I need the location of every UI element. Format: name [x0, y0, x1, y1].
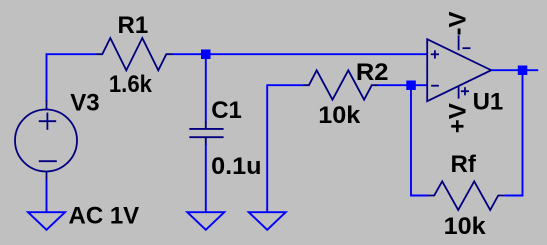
- svg-text:1.6k: 1.6k: [109, 71, 153, 98]
- ground under C1: [187, 212, 224, 230]
- wire Rf right to output node: [504, 70, 522, 195]
- svg-text:R2: R2: [356, 59, 389, 86]
- label U1: [473, 89, 504, 116]
- svg-text:U1: U1: [473, 89, 504, 116]
- net label V+ (bottom power pin): [445, 103, 472, 133]
- value AC 1V: [69, 202, 140, 229]
- svg-text:Rf: Rf: [451, 151, 477, 178]
- svg-text:10k: 10k: [318, 102, 361, 129]
- value 10k (Rf): [444, 213, 487, 240]
- value 10k (R2): [318, 102, 361, 129]
- output node junction: [518, 66, 528, 76]
- svg-text:C1: C1: [211, 97, 242, 124]
- node A junction: [201, 50, 211, 60]
- wire R2 to inverting node: [378, 84, 427, 86]
- wire C1 bottom to ground: [205, 145, 207, 213]
- svg-text:+V: +V: [445, 103, 472, 133]
- value 1.6k: [109, 71, 153, 98]
- wire op-amp output: [491, 69, 538, 71]
- ground under V3: [28, 212, 65, 230]
- op-amp U1: [427, 35, 491, 101]
- wire from V3 top to node A rail: [47, 54, 97, 102]
- capacitor C1: [189, 121, 223, 145]
- label C1: [211, 97, 242, 124]
- resistor Rf: [428, 181, 504, 210]
- wire node A rail to op-amp noninverting input: [173, 53, 428, 55]
- svg-text:R1: R1: [118, 12, 149, 39]
- wire inverting node down to Rf: [411, 90, 428, 196]
- wire R2 left leg to ground: [267, 85, 302, 212]
- label R2: [356, 59, 389, 86]
- voltage source V3: [15, 100, 77, 181]
- wire node A down to C1: [205, 54, 207, 121]
- net label V- (top power pin): [445, 12, 472, 36]
- ground under R2 leg: [249, 212, 286, 230]
- svg-text:AC 1V: AC 1V: [69, 202, 140, 229]
- inverting node junction: [406, 81, 416, 91]
- value 0.1u: [211, 153, 262, 180]
- svg-text:10k: 10k: [444, 213, 487, 240]
- label V3: [70, 90, 99, 117]
- wire V3 bottom to ground: [46, 180, 48, 212]
- svg-text:0.1u: 0.1u: [211, 153, 262, 180]
- label Rf: [451, 151, 477, 178]
- resistor R1: [96, 38, 173, 70]
- svg-text:-V: -V: [445, 12, 472, 36]
- resistor R2: [303, 70, 378, 99]
- svg-text:V3: V3: [70, 90, 99, 117]
- label R1: [118, 12, 149, 39]
